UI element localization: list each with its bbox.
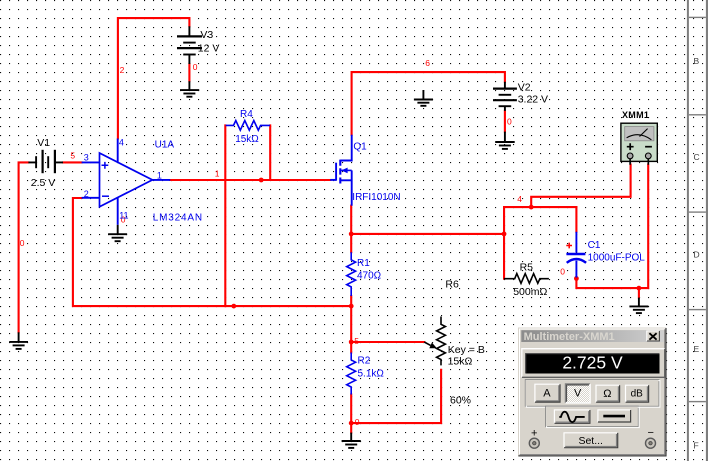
svg-text:3: 3 bbox=[84, 153, 89, 163]
resistor R4 bbox=[226, 121, 270, 131]
wire V3 bottom lead to ground bbox=[188, 64, 190, 81]
svg-text:V3: V3 bbox=[200, 29, 213, 41]
wire R4 right leg vertical bbox=[269, 125, 271, 179]
svg-text:2: 2 bbox=[84, 189, 89, 199]
wire R1 bottom to R2 top bbox=[350, 296, 352, 353]
svg-text:0: 0 bbox=[193, 62, 198, 72]
node net4 / meter plus bbox=[529, 205, 534, 210]
svg-text:6: 6 bbox=[425, 58, 430, 68]
ground at meter minus / C1 bbox=[629, 298, 648, 314]
wire Q1 source down to R1 bbox=[350, 206, 352, 253]
svg-text:R5: R5 bbox=[520, 262, 534, 274]
svg-text:V2: V2 bbox=[518, 82, 531, 94]
button Set... bbox=[564, 433, 618, 448]
svg-text:0: 0 bbox=[355, 417, 360, 427]
svg-text:0: 0 bbox=[560, 266, 565, 276]
svg-text:0: 0 bbox=[507, 116, 512, 126]
Q1 body-diode arrow head bbox=[341, 168, 347, 174]
svg-text:4: 4 bbox=[517, 194, 522, 204]
svg-text:15kΩ: 15kΩ bbox=[448, 356, 473, 368]
svg-text:R2: R2 bbox=[358, 356, 371, 367]
svg-text:U1A: U1A bbox=[155, 140, 175, 151]
wire R4 left leg vertical bbox=[224, 125, 226, 306]
svg-text:V1: V1 bbox=[37, 137, 50, 149]
button Ohm bbox=[596, 385, 620, 403]
svg-text:1: 1 bbox=[157, 170, 162, 180]
svg-text:C: C bbox=[694, 152, 700, 162]
svg-text:Key = B: Key = B bbox=[448, 344, 485, 356]
wire net 5: R1/R2 node to pot wiper bbox=[351, 341, 424, 343]
display bezel bbox=[522, 348, 666, 377]
ground at R2 bottom bbox=[342, 433, 361, 448]
svg-text:11: 11 bbox=[119, 211, 128, 221]
wire V1 negative to left ground bbox=[19, 162, 29, 332]
resistor R2 bbox=[347, 353, 356, 395]
potentiometer R6 bbox=[424, 317, 445, 366]
close button bbox=[647, 331, 660, 342]
minus terminal jack bbox=[646, 438, 656, 448]
title bar bbox=[521, 330, 664, 342]
svg-text:4: 4 bbox=[119, 138, 124, 148]
wire pot bottom to ground rail bbox=[351, 370, 441, 423]
wire multimeter plus lead bbox=[531, 165, 630, 208]
node R1 bottom / feedback bbox=[349, 304, 354, 309]
svg-text:2: 2 bbox=[120, 65, 125, 75]
svg-text:Q1: Q1 bbox=[353, 141, 367, 152]
svg-text:R4: R4 bbox=[240, 109, 253, 120]
svg-text:A: A bbox=[543, 388, 551, 400]
C1 plus sign bbox=[566, 243, 572, 249]
button dB bbox=[625, 385, 648, 403]
svg-text:−: − bbox=[648, 427, 654, 439]
svg-text:0: 0 bbox=[20, 238, 25, 248]
capacitor C1 bbox=[566, 232, 586, 278]
waveform button group frame bbox=[546, 406, 640, 427]
svg-text:5: 5 bbox=[70, 151, 75, 161]
node net4 / R5 column bbox=[502, 232, 507, 237]
button DC (line) bbox=[598, 410, 631, 423]
battery V1 bbox=[28, 150, 63, 173]
mode button group frame bbox=[525, 380, 660, 408]
svg-text:IRFI1010N: IRFI1010N bbox=[352, 192, 400, 203]
ground at V3 bbox=[180, 81, 199, 97]
wire net 2: op-amp pin4 up and over to V3 bbox=[118, 18, 189, 138]
plus terminal jack bbox=[529, 438, 539, 448]
wire net 1: op-amp output to Q1 gate bbox=[170, 179, 330, 181]
node R5 right / C1 bottom bbox=[574, 276, 579, 281]
button A bbox=[535, 384, 560, 402]
R6 wiper arrow head bbox=[429, 343, 437, 349]
node on feedback wire bbox=[231, 304, 236, 309]
wire C1 top lead bbox=[575, 207, 577, 232]
ground at V1 wire bbox=[9, 332, 28, 349]
node ground / meter minus bbox=[637, 286, 642, 291]
wire V1 positive to op-amp pin3 bbox=[63, 161, 82, 163]
transistor Q1 bbox=[330, 135, 352, 206]
wire multimeter minus lead bbox=[639, 165, 648, 289]
wire net 4 horizontal from Q1 source node to R5 column bbox=[351, 233, 504, 235]
resistor R5 bbox=[504, 274, 549, 284]
svg-text:LM324AN: LM324AN bbox=[153, 212, 203, 223]
svg-text:1: 1 bbox=[215, 168, 220, 178]
svg-text:3.22 V: 3.22 V bbox=[518, 94, 548, 106]
node R1-R2 / wiper bbox=[349, 340, 354, 345]
svg-text:XMM1: XMM1 bbox=[622, 110, 649, 120]
svg-text:Set...: Set... bbox=[578, 435, 603, 447]
svg-text:500mΩ: 500mΩ bbox=[513, 286, 547, 298]
op-amp U1A bbox=[82, 139, 171, 225]
svg-text:dB: dB bbox=[631, 389, 644, 400]
multimeter XMM1 icon bbox=[621, 123, 657, 165]
wire net 3: op-amp pin2 feedback run bbox=[73, 198, 351, 306]
net number labels (red) bbox=[20, 58, 566, 427]
svg-text:15kΩ: 15kΩ bbox=[235, 134, 259, 145]
resistor R1 bbox=[347, 252, 356, 296]
button AC (sine) bbox=[554, 410, 590, 424]
sheet border right strip bbox=[687, 0, 708, 461]
svg-text:470Ω: 470Ω bbox=[357, 271, 382, 282]
svg-text:2.5 V: 2.5 V bbox=[31, 177, 56, 189]
svg-text:V: V bbox=[574, 388, 582, 400]
svg-text:12 V: 12 V bbox=[198, 43, 220, 55]
svg-text:Ω: Ω bbox=[603, 388, 611, 400]
window frame bbox=[518, 328, 666, 457]
svg-text:E: E bbox=[694, 344, 700, 354]
floating ground near top bbox=[414, 90, 433, 106]
wire V2 bottom lead to ground bbox=[504, 111, 506, 132]
svg-text:R6: R6 bbox=[445, 279, 459, 291]
svg-text:B: B bbox=[694, 56, 700, 66]
wire C1 bottom to ground node bbox=[576, 277, 639, 288]
svg-text:Multimeter-XMM1: Multimeter-XMM1 bbox=[524, 331, 615, 343]
wire R2 bottom to ground node bbox=[350, 395, 352, 433]
node R2 bottom / ground rail bbox=[349, 421, 354, 426]
button V (selected) bbox=[565, 384, 590, 404]
svg-text:1000uF-POL: 1000uF-POL bbox=[588, 253, 646, 264]
wire net 4 top horizontal to C1 bbox=[504, 206, 576, 208]
svg-text:R1: R1 bbox=[357, 258, 370, 269]
svg-text:D: D bbox=[694, 250, 700, 260]
svg-text:5.1kΩ: 5.1kΩ bbox=[358, 369, 385, 380]
node Q1 source / net4 bbox=[349, 232, 354, 237]
multimeter instrument window Multimeter-XMM1 bbox=[518, 328, 666, 457]
battery V3 bbox=[177, 26, 202, 64]
svg-text:5: 5 bbox=[354, 336, 359, 346]
wire net 6: Q1 drain up and over to V2 bbox=[352, 72, 505, 135]
wire ground stem red part at meter ground bbox=[638, 288, 640, 298]
ground at op-amp pin 11 bbox=[108, 225, 127, 241]
svg-text:+: + bbox=[531, 427, 537, 439]
svg-text:C1: C1 bbox=[588, 240, 601, 251]
wire R5 column vertical bbox=[503, 207, 505, 279]
ground at V2 bbox=[495, 132, 515, 149]
node on output wire near R4 bbox=[259, 178, 264, 183]
svg-text:2.725 V: 2.725 V bbox=[562, 352, 623, 372]
svg-text:60%: 60% bbox=[450, 394, 471, 406]
svg-text:F: F bbox=[694, 441, 699, 451]
battery V2 bbox=[493, 82, 517, 111]
